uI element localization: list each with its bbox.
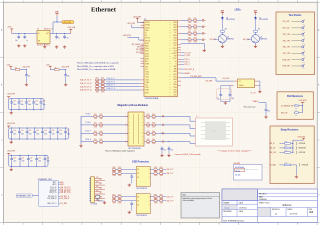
svg-text:49R9: 49R9 [194,35,197,37]
svg-text:TXD0: TXD0 [173,87,177,89]
svg-text:49R9: 49R9 [188,35,191,37]
svg-text:49R9: 49R9 [100,127,103,129]
svg-text:49R9: 49R9 [160,202,163,204]
svg-text:26 OF 26: 26 OF 26 [290,214,298,216]
svg-text:MMBT3904: MMBT3904 [227,38,234,40]
svg-text:LED1: LED1 [173,74,177,76]
svg-text:RXD_TP0: RXD_TP0 [283,59,291,61]
svg-text:SPICLK: SPICLK [145,40,150,42]
svg-text:49R9: 49R9 [147,143,150,145]
svg-text:IO2: IO2 [137,204,139,206]
svg-text:LED2: LED2 [173,76,177,78]
svg-text:49R9: 49R9 [152,118,155,120]
svg-text:Magnetics (Above Modules): Magnetics (Above Modules) [118,104,149,107]
svg-text:GPIO0/B: GPIO0/B [299,143,305,145]
svg-text:KSZ_PME_N: KSZ_PME_N [60,198,69,200]
svg-text:CLK_REF_MOD: CLK_REF_MOD [190,76,203,78]
svg-text:49R9: 49R9 [96,92,99,94]
svg-text:100n: 100n [21,133,24,135]
svg-text:100n: 100n [13,133,16,135]
svg-text:TXM1: TXM1 [145,90,149,92]
svg-text:TP1: TP1 [302,36,305,38]
svg-text:CRS: CRS [145,66,148,68]
svg-text:CLK_REF: CLK_REF [60,203,67,205]
svg-text:REF_CLK_O: REF_CLK_O [48,203,58,205]
svg-text:SHEET: SHEET [287,209,292,211]
svg-text:TXD2: TXD2 [173,92,177,94]
svg-text:TXEN: TXEN [173,35,177,37]
svg-text:49R9: 49R9 [152,143,155,145]
svg-text:49R9: 49R9 [152,135,155,137]
svg-text:Test Points: Test Points [289,14,302,17]
svg-text:49R9: 49R9 [194,22,197,24]
svg-text:C33: C33 [36,130,39,132]
svg-text:25MHz: 25MHz [239,85,244,87]
svg-text:X1A_RX_P1_P: X1A_RX_P1_P [80,85,92,88]
svg-text:TP1: TP1 [302,30,305,32]
svg-text:RXDV: RXDV [145,59,149,61]
svg-text:C34: C34 [44,130,47,132]
svg-text:C36: C36 [59,130,62,132]
svg-text:TP1: TP1 [302,23,305,25]
svg-text:49R9: 49R9 [100,135,103,137]
svg-text:CLK_REF: CLK_REF [205,80,212,82]
svg-text:U13 IP4234CZ6: U13 IP4234CZ6 [136,215,147,217]
svg-text:TX_EN: TX_EN [184,55,190,57]
svg-text:RXER: RXER [145,64,149,66]
svg-text:TXP1: TXP1 [145,87,149,89]
svg-text:49R9: 49R9 [118,175,121,177]
svg-text:1u: 1u [58,38,60,40]
svg-text:100n: 100n [43,104,46,106]
svg-text:Pull Resistors: Pull Resistors [287,95,304,98]
svg-text:PART: PART [259,195,263,198]
svg-text:TP1: TP1 [302,49,305,51]
svg-text:COL: COL [145,69,148,71]
svg-text:TP2: TP2 [96,181,99,183]
svg-text:C30: C30 [13,130,16,132]
svg-text:+1V2_ETH: +1V2_ETH [127,23,136,25]
svg-text:KSZ_RST_B: KSZ_RST_B [184,69,195,71]
svg-text:X1A_RX_P1_N: X1A_RX_P1_N [80,89,92,92]
svg-text:RX_CLK: RX_CLK [283,28,290,30]
svg-text:LED2: LED2 [173,27,177,29]
svg-text:EN: EN [38,41,40,43]
svg-text:TP1: TP1 [100,179,103,181]
svg-text:+3V3_ETH: +3V3_ETH [297,136,306,138]
svg-text:RST: RST [174,56,177,58]
svg-text:LED3: LED3 [173,30,177,32]
svg-text:KSZ_PME_N: KSZ_PME_N [47,198,56,200]
svg-text:Connect to DGND_CHS if possibl: Connect to DGND_CHS if possible [175,153,201,156]
svg-text:SPI_CS: SPI_CS [145,38,150,40]
svg-text:49R9: 49R9 [154,202,157,204]
svg-text:+1V2_ETH: +1V2_ETH [7,94,16,96]
svg-text:49R9: 49R9 [160,175,163,177]
svg-text:RXD1: RXD1 [145,51,149,53]
svg-text:SML-D12M1W: SML-D12M1W [259,19,268,21]
svg-text:MD_IO2: MD_IO2 [270,148,276,150]
svg-text:LED3: LED3 [173,79,177,81]
svg-text:C34: C34 [47,157,50,159]
svg-text:49R9: 49R9 [147,118,150,120]
svg-text:OUT: OUT [46,33,49,35]
svg-text:TXEN: TXEN [173,84,177,86]
svg-text:X1: X1 [239,81,241,83]
svg-text:RXP1: RXP1 [145,92,149,94]
svg-text:Place to GND plane under magne: Place to GND plane under magnetics [105,150,135,153]
svg-text:VDD33: VDD33 [145,22,150,24]
svg-text:C33: C33 [35,101,38,103]
svg-text:TXD_TP2: TXD_TP2 [283,47,290,49]
svg-text:49R9: 49R9 [113,202,116,204]
svg-text:C34: C34 [43,101,46,103]
svg-text:TXD1: TXD1 [173,89,177,91]
svg-text:TXC: TXC [174,82,177,84]
svg-text:SML-D12M1W: SML-D12M1W [226,19,235,21]
svg-text:49R9: 49R9 [101,92,104,94]
svg-text:X1_OUT: X1_OUT [251,93,256,95]
svg-text:Q4: Q4 [260,37,262,39]
svg-text:100n: 100n [44,133,47,135]
svg-text:+1V2_ETH: +1V2_ETH [222,78,229,80]
svg-text:XXXX: XXXX [212,131,218,133]
svg-text:+5V0: +5V0 [46,64,50,66]
svg-text:MDC_UP: MDC_UP [281,112,287,114]
svg-text:Ethernet: Ethernet [91,7,117,14]
svg-text:10u: 10u [67,76,70,78]
svg-text:IO2: IO2 [137,177,139,179]
svg-text:Place MODE_Ch_x capacitors clo: Place MODE_Ch_x capacitors close to FPGA [77,68,116,71]
svg-text:49R9: 49R9 [147,135,150,137]
svg-text:MOSI: MOSI [145,43,149,45]
svg-text:VDDL: VDDL [145,30,149,32]
svg-text:TP7: TP7 [100,193,103,195]
svg-text:A3: A3 [309,210,313,214]
svg-text:TP3: TP3 [100,184,103,186]
svg-text:Strap Resistors: Strap Resistors [281,129,299,132]
svg-text:READY: READY [184,72,191,75]
svg-text:TXEN: TXEN [145,82,149,84]
svg-text:10u: 10u [15,40,18,42]
svg-text:49R9: 49R9 [188,28,191,30]
svg-text:X1A_TX_P1_P: X1A_TX_P1_P [80,79,92,82]
svg-text:TP1: TP1 [302,62,305,64]
svg-text:100n: 100n [28,104,31,106]
svg-text:MD_CLK: MD_CLK [270,152,277,154]
svg-text:+3V3_ETH: +3V3_ETH [299,100,308,102]
svg-text:TXD1: TXD1 [173,40,177,42]
svg-text:TP0: TP0 [96,177,99,179]
svg-text:+1V2_ETH: +1V2_ETH [22,67,31,69]
svg-text:U12 IP4234CZ6: U12 IP4234CZ6 [136,188,147,190]
svg-text:100n: 100n [13,104,16,106]
svg-text:RXD3: RXD3 [145,56,149,58]
svg-text:LEDs: LEDs [235,9,242,12]
svg-text:C31: C31 [21,130,24,132]
svg-text:0R DNI: 0R DNI [235,171,241,173]
svg-text:REVISION: REVISION [272,209,280,211]
svg-text:C32: C32 [30,157,33,159]
svg-text:+3V3_ETH: +3V3_ETH [123,35,132,37]
svg-text:D2: D2 [226,17,228,19]
svg-text:SPI_CLK: SPI_CLK [137,47,143,49]
svg-text:MODE0/B: MODE0/B [299,148,306,150]
svg-text:1u: 1u [27,40,29,42]
svg-text:49R9: 49R9 [188,41,191,43]
svg-text:RX_P1_N: RX_P1_N [50,192,57,194]
svg-text:100n: 100n [30,161,33,163]
svg-text:CRS: CRS [174,50,177,52]
svg-text:RXC: RXC [145,61,148,63]
svg-text:49R9: 49R9 [100,143,103,145]
svg-text:RXC: RXC [174,95,177,97]
svg-text:TXD0: TXD0 [173,37,177,39]
svg-text:49R9: 49R9 [94,118,97,120]
svg-text:TP6: TP6 [96,190,99,192]
svg-text:49R9: 49R9 [94,143,97,145]
svg-text:U3: U3 [37,28,39,30]
svg-text:SHEET TITLE: SHEET TITLE [259,202,271,204]
svg-text:LED0: LED0 [173,71,177,73]
svg-text:C32: C32 [29,130,32,132]
svg-text:C35: C35 [52,130,55,132]
svg-text:+1V2_ETH: +1V2_ETH [7,150,16,152]
svg-text:TP1: TP1 [302,55,305,57]
svg-text:TXD0: TXD0 [145,72,149,74]
svg-text:SPI_MOSI: SPI_MOSI [136,49,144,51]
svg-text:LED0: LED0 [173,22,177,24]
svg-text:TXC: TXC [145,85,148,87]
svg-text:+5V0: +5V0 [7,27,11,29]
svg-text:GND: GND [173,66,176,68]
svg-text:TXD1: TXD1 [145,74,149,76]
svg-text:+5V0: +5V0 [7,64,11,66]
svg-text:IO1: IO1 [137,173,139,175]
svg-text:Place in GND plane under MODE_: Place in GND plane under MODE_Ch_x capac… [77,62,119,65]
svg-text:KSZ_RST_B: KSZ_RST_B [60,196,69,198]
svg-text:TXD_TP0: TXD_TP0 [283,34,290,36]
svg-text:LED1: LED1 [173,24,177,26]
svg-text:49R9: 49R9 [100,118,103,120]
svg-text:14/09/2021: 14/09/2021 [239,207,247,209]
svg-text:TP_GND: TP_GND [91,204,98,206]
svg-text:SPI_MISO: SPI_MISO [136,52,144,54]
svg-text:+3V3_ETH: +3V3_ETH [7,123,16,125]
svg-text:I2C_IRQ/KSZ_INT: I2C_IRQ/KSZ_INT [281,105,294,107]
svg-text:TXD_2: TXD_2 [184,64,189,66]
svg-text:49R9: 49R9 [118,202,121,204]
svg-text:IO0: IO0 [137,196,139,198]
svg-text:C30: C30 [13,101,16,103]
svg-text:*** Change if mirror mode chan: *** Change if mirror mode changed *** [218,151,252,153]
svg-text:49R9: 49R9 [194,28,197,30]
svg-text:1.0: 1.0 [275,214,278,216]
svg-text:10k 10k: 10k 10k [235,175,241,177]
svg-text:RX_P1_P: RX_P1_P [50,191,57,193]
svg-text:ESD Protection: ESD Protection [132,160,149,163]
svg-text:C30: C30 [13,157,16,159]
svg-text:IO1: IO1 [137,200,139,202]
svg-text:IN: IN [38,33,39,35]
svg-text:Ethernet: Ethernet [283,204,292,207]
svg-text:SPI_RST_N: SPI_RST_N [48,196,56,198]
svg-text:22u: 22u [66,38,69,40]
svg-text:100n: 100n [67,133,70,135]
svg-text:100n: 100n [21,104,24,106]
svg-text:22p: 22p [232,98,234,100]
svg-text:RXD2: RXD2 [145,53,149,55]
svg-text:TXD3: TXD3 [145,79,149,81]
svg-text:FILE: ETHERNET.SchDoc: FILE: ETHERNET.SchDoc [223,220,244,222]
svg-text:MD_IO: MD_IO [270,143,276,145]
svg-text:472: 472 [225,28,228,30]
svg-text:C31: C31 [22,157,25,159]
svg-text:TP5: TP5 [100,188,103,190]
svg-text:KSZ8061RNBVA: KSZ8061RNBVA [145,97,159,100]
svg-text:49R9: 49R9 [188,22,191,24]
svg-text:Place MODE_Ch_x capacitors clo: Place MODE_Ch_x capacitors close to PHY [77,65,115,68]
svg-text:TXC: TXC [174,32,177,34]
svg-text:Q4: Q4 [227,37,229,39]
svg-text:C60: C60 [268,110,271,112]
svg-text:RXC: RXC [174,45,177,47]
svg-text:VDD12: VDD12 [145,27,150,29]
svg-text:C31: C31 [21,101,24,103]
svg-text:C51: C51 [164,150,167,152]
svg-text:100n: 100n [59,133,62,135]
svg-text:GPIO2/B: GPIO2/B [302,165,308,167]
svg-text:GPIO1/B: GPIO1/B [299,152,305,154]
svg-text:100n: 100n [29,133,32,135]
svg-text:RXD_TP1: RXD_TP1 [283,66,291,68]
svg-text:49R9: 49R9 [194,41,197,43]
svg-text:472: 472 [258,28,261,30]
svg-text:100n: 100n [36,133,39,135]
svg-text:C33: C33 [38,157,41,159]
svg-text:DRAWING: DRAWING [259,198,268,201]
svg-text:IO0: IO0 [137,169,139,171]
svg-text:TP1: TP1 [302,68,305,70]
svg-text:MMBT3904: MMBT3904 [260,38,267,40]
svg-text:10u: 10u [28,76,31,78]
svg-text:RXDV: RXDV [173,48,177,50]
svg-text:TXD_TP1: TXD_TP1 [283,40,290,42]
svg-text:TXD2: TXD2 [145,77,149,79]
svg-text:RXD0: RXD0 [145,48,149,50]
svg-text:TX_P1_N: TX_P1_N [50,189,57,191]
svg-text:INTRP: INTRP [172,53,176,55]
svg-text:100n: 100n [47,161,50,163]
svg-text:+3V3_ETH: +3V3_ETH [63,22,72,24]
svg-text:49R9: 49R9 [113,175,116,177]
svg-text:SPI_CS/KSZ_CS: SPI_CS/KSZ_CS [132,44,144,46]
svg-text:C32: C32 [28,101,31,103]
svg-text:TP1: TP1 [302,42,305,44]
svg-text:49R9: 49R9 [147,127,150,129]
svg-text:100n: 100n [52,133,55,135]
svg-text:C37: C37 [67,130,70,132]
svg-text:49R9: 49R9 [154,175,157,177]
svg-text:CLK_INT: CLK_INT [283,21,290,23]
svg-text:TXD_TP3: TXD_TP3 [283,53,290,55]
svg-text:REVIEWED: REVIEWED [223,211,232,213]
svg-text:TP4: TP4 [96,186,99,188]
svg-text:X1A_TX_P1_N: X1A_TX_P1_N [80,82,92,85]
svg-text:C52: C52 [171,150,174,152]
svg-text:MX-R98 diffs: MX-R98 diffs [235,167,244,169]
svg-text:100n: 100n [13,161,16,163]
svg-text:49R9: 49R9 [94,127,97,129]
svg-text:49R9: 49R9 [152,127,155,129]
svg-text:+1V2_ETH: +1V2_ETH [67,27,76,29]
svg-text:D2: D2 [259,17,261,19]
svg-text:100n: 100n [22,161,25,163]
svg-text:TXD2: TXD2 [173,43,177,45]
svg-text:+3V3_ETH: +3V3_ETH [61,67,70,69]
svg-text:100n: 100n [38,161,41,163]
svg-text:100n: 100n [35,104,38,106]
svg-text:49R9: 49R9 [94,135,97,137]
svg-text:TX_P1_P: TX_P1_P [50,187,56,189]
